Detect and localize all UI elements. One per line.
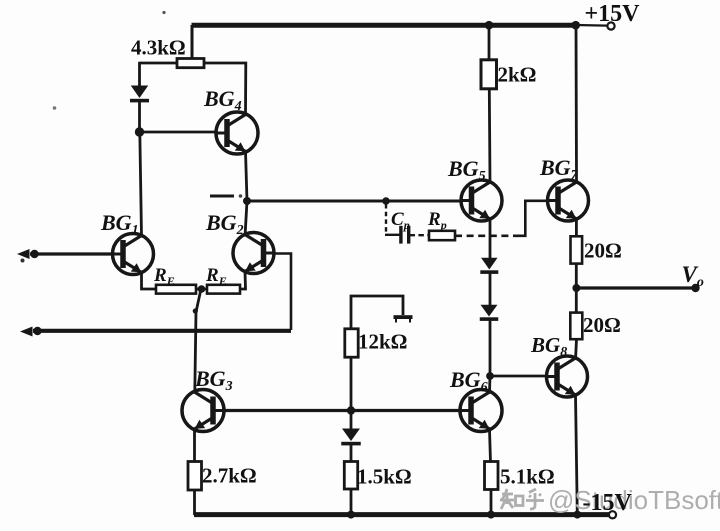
label Rp: [427, 209, 447, 232]
wire Vo: [576, 286, 694, 289]
watermark text: [548, 485, 720, 515]
node B: [243, 197, 251, 205]
resistor 2k: [481, 60, 497, 89]
blob: [193, 308, 198, 313]
input 2 dot: [33, 327, 41, 335]
diode D3: [480, 305, 499, 321]
wire 12k to node D: [350, 357, 353, 411]
resistor 12k: [345, 329, 358, 357]
wire BG8 base: [490, 375, 547, 378]
Vo terminal dot: [691, 284, 699, 292]
svg-text:+15V: +15V: [585, 1, 641, 27]
stray dash: [210, 195, 234, 198]
svg-text:12kΩ: 12kΩ: [358, 330, 408, 354]
-15V terminal: [609, 511, 616, 518]
node G: [486, 372, 494, 380]
node rail-5.1k: [487, 511, 495, 519]
node D: [347, 406, 355, 414]
wire BG7 collector to rail: [575, 25, 578, 182]
wire Cp dashed drop: [385, 204, 387, 235]
-15V label: [583, 490, 633, 516]
node E: [485, 21, 494, 30]
diode D4: [341, 429, 361, 446]
node C: [198, 285, 206, 293]
diode D1: [130, 86, 149, 103]
input 1 arrow: [17, 249, 30, 259]
resistor RE1: [156, 285, 196, 294]
wire node C to BG3: [195, 289, 201, 392]
label RE2: [205, 265, 227, 288]
+15V label: [585, 1, 641, 27]
wire D4 to 1.5k: [350, 445, 353, 463]
svg-text:4.3kΩ: 4.3kΩ: [131, 36, 186, 60]
+15V terminal: [607, 22, 614, 29]
wire 2.7k to rail: [193, 490, 196, 516]
label BG1: [100, 210, 139, 238]
wire colA upper: [138, 62, 141, 87]
wire node B to BG5 base: [247, 200, 461, 203]
svg-text:1.5kΩ: 1.5kΩ: [357, 465, 412, 489]
wire Rp dashed right: [455, 235, 517, 238]
svg-text:20Ω: 20Ω: [584, 239, 622, 263]
wire node D to D4: [350, 411, 353, 430]
wire rail to R 4.3k: [191, 25, 194, 60]
wire 20R-1 to 20R-2: [575, 263, 578, 313]
label 12k: [358, 330, 408, 354]
wire D2 to D3: [489, 273, 492, 305]
label BG5: [447, 156, 486, 184]
node H: [571, 21, 580, 30]
wire BG8 emitter to rail: [576, 395, 578, 515]
watermark hanzi: [500, 489, 544, 509]
input 2 arrow: [20, 327, 33, 337]
wire rail to 2k: [488, 25, 491, 60]
label Cp: [391, 209, 410, 232]
wire Cp to Rp: [410, 234, 430, 236]
label 2.7k: [202, 464, 257, 488]
transistor BG2: [233, 233, 274, 274]
diode D2: [480, 258, 498, 274]
wire BG7 emitter: [575, 219, 578, 237]
resistor 20R-2: [570, 313, 582, 340]
label 1.5k: [357, 465, 412, 489]
label RE1: [153, 265, 175, 288]
wire BG6 emitter: [490, 429, 491, 462]
transistor BG1: [113, 234, 154, 275]
input 1 dot: [30, 250, 38, 258]
svg-text:@StudioTBsoft: @StudioTBsoft: [548, 485, 720, 515]
svg-text:5.1kΩ: 5.1kΩ: [500, 465, 555, 489]
wire +15V lead: [576, 24, 607, 27]
wire BG5 emitter: [489, 219, 492, 258]
wire 20R-2 to BG8: [574, 339, 578, 358]
label 20R-1: [584, 239, 622, 263]
wire 2k to BG5 collector: [488, 89, 492, 183]
wire input 1: [30, 252, 113, 255]
wire BG3 emitter: [193, 429, 196, 462]
label 4.3k: [131, 36, 186, 60]
resistor 20R-1: [571, 236, 583, 263]
speck: [21, 11, 243, 263]
wire RE junction: [196, 288, 208, 291]
wire BG4 base: [140, 131, 217, 134]
node Vo: [572, 284, 580, 292]
resistor Rp: [429, 231, 455, 240]
label 20R-2: [583, 313, 621, 337]
node rail-mid: [347, 511, 355, 519]
transistor BG3: [182, 390, 224, 432]
label BG2: [205, 210, 244, 238]
wire BG3 base to BG6 base: [224, 409, 461, 412]
wire BG1 emitter down: [142, 272, 157, 289]
label BG8: [530, 333, 567, 360]
node F: [382, 197, 390, 205]
resistor 5.1k: [485, 462, 499, 490]
-15V rail: [194, 512, 612, 517]
wire Cp lead: [385, 234, 400, 236]
label Vo: [682, 262, 704, 290]
node A: [135, 127, 144, 136]
svg-text:2kΩ: 2kΩ: [498, 63, 537, 87]
label BG7: [539, 155, 579, 183]
wire input 2: [33, 329, 291, 333]
transistor BG7: [548, 180, 589, 221]
wire colA mid: [138, 101, 141, 132]
wire colA to BG1 collector: [140, 132, 142, 236]
resistor RE2: [207, 285, 240, 294]
transistor BG5: [461, 180, 502, 221]
transistor BG4: [216, 112, 258, 154]
+15V rail: [192, 23, 577, 28]
label 2k: [498, 63, 537, 87]
wire 5.1k to rail: [490, 489, 493, 515]
label BG4: [203, 86, 242, 114]
svg-text:-15V: -15V: [583, 490, 633, 516]
svg-text:2.7kΩ: 2.7kΩ: [202, 464, 257, 488]
ground branch wire: [351, 296, 403, 330]
svg-text:20Ω: 20Ω: [583, 313, 621, 337]
label 5.1k: [500, 465, 555, 489]
wire node B to BG2 collector: [245, 201, 247, 233]
label BG3: [194, 366, 233, 394]
wire RE2 to BG2 emitter: [240, 272, 246, 289]
resistor 1.5k: [344, 462, 357, 490]
resistor 2.7k: [188, 462, 202, 491]
wire BG6 collector: [488, 377, 491, 392]
label BG6: [449, 367, 488, 395]
transistor BG6: [460, 390, 502, 432]
resistor 4.3k: [177, 59, 204, 68]
wire 1.5k to rail: [350, 489, 353, 516]
wire D3 to node G: [489, 320, 492, 376]
node rail-BG8: [573, 511, 581, 519]
ground: [394, 315, 413, 322]
wire Rp to BG7 base: [516, 201, 548, 236]
transistor BG8: [547, 356, 588, 397]
wire BG4 emitter to node B: [246, 151, 248, 201]
capacitor Cp: [401, 226, 409, 244]
wire BG2 base right: [274, 254, 291, 331]
wire 4.3k right lead: [204, 63, 246, 114]
wire 4.3k left lead: [140, 62, 178, 65]
